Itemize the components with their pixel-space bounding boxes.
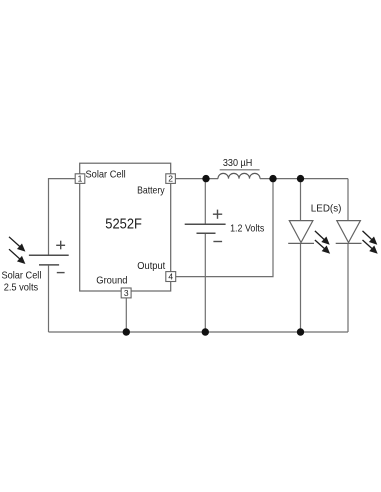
- pin 3 name Ground: [96, 276, 127, 287]
- wire solar cell to bottom rail: [48, 266, 50, 332]
- solar cell plus sign: [56, 241, 65, 250]
- LED D1 emission arrow 1: [315, 231, 330, 245]
- solar light arrow 2: [9, 249, 25, 264]
- solar cell voltage 2.5 volts: [4, 282, 39, 293]
- solar light arrow 1: [9, 237, 25, 252]
- LED D2 emission arrow 1: [363, 231, 378, 245]
- wire LED2 cathode to rail: [347, 243, 349, 332]
- pin 1: [75, 174, 85, 184]
- svg-text:3: 3: [124, 288, 129, 298]
- junction dot bottom rail at LED1 branch: [297, 328, 304, 335]
- LED D1: [288, 221, 314, 244]
- pin 4: [166, 272, 176, 282]
- solar cell minus sign: [57, 272, 65, 274]
- inductor value label 330 uH: [220, 158, 260, 170]
- svg-text:Ground: Ground: [96, 276, 127, 287]
- junction dot top rail at battery branch: [202, 175, 209, 182]
- svg-text:Battery: Battery: [137, 185, 165, 196]
- LED group label LED(s): [311, 204, 342, 215]
- pin 2 name Battery: [137, 185, 165, 196]
- pin 2: [166, 174, 176, 184]
- IC U1 box: [80, 163, 171, 291]
- inductor L1: [218, 173, 260, 178]
- svg-text:1: 1: [78, 174, 83, 184]
- wire output branch (pin4 to top rail): [176, 179, 273, 277]
- battery plus sign: [213, 210, 222, 219]
- wire battery branch bottom: [204, 233, 206, 332]
- LED D2 emission arrow 2: [363, 240, 378, 254]
- junction dot top rail at output branch: [269, 175, 276, 182]
- svg-text:Output: Output: [137, 261, 165, 272]
- battery minus sign: [213, 241, 222, 243]
- pin 4 name Output: [137, 261, 165, 272]
- svg-text:2.5 volts: 2.5 volts: [4, 282, 39, 293]
- battery B1: [185, 224, 226, 233]
- wire pin1 to solar cell (left): [49, 179, 76, 255]
- svg-text:2: 2: [168, 174, 173, 184]
- junction dot bottom rail at ground branch: [123, 328, 130, 335]
- svg-text:5252F: 5252F: [105, 216, 142, 232]
- wire pin2 to inductor: [176, 178, 218, 180]
- LED D1 emission arrow 2: [315, 240, 330, 254]
- wire inductor to top-right: [260, 178, 348, 180]
- wire LED1 anode: [300, 179, 302, 221]
- wire ground branch pin3 to rail: [125, 298, 127, 332]
- pin 1 name Solar Cell: [86, 170, 126, 181]
- wire LED1 cathode to rail: [300, 243, 302, 332]
- wire battery branch top: [204, 179, 206, 225]
- junction dot top rail at LED1 branch: [297, 175, 304, 182]
- wire bottom ground rail: [49, 331, 349, 333]
- svg-text:1.2 Volts: 1.2 Volts: [230, 224, 264, 235]
- wire LED2 anode (right riser): [347, 179, 349, 221]
- solar cell PV1: [29, 255, 69, 265]
- svg-text:LED(s): LED(s): [311, 204, 342, 215]
- junction dot bottom rail at battery branch: [202, 328, 209, 335]
- LED D2: [336, 221, 362, 244]
- pin 3: [121, 288, 131, 298]
- solar cell label: [2, 270, 42, 281]
- battery value 1.2 Volts: [230, 224, 264, 235]
- IC label 5252F: [105, 216, 142, 232]
- svg-text:Solar Cell: Solar Cell: [86, 170, 126, 181]
- svg-text:4: 4: [168, 272, 173, 282]
- svg-text:330 µH: 330 µH: [223, 158, 252, 169]
- svg-text:Solar Cell: Solar Cell: [2, 270, 42, 281]
